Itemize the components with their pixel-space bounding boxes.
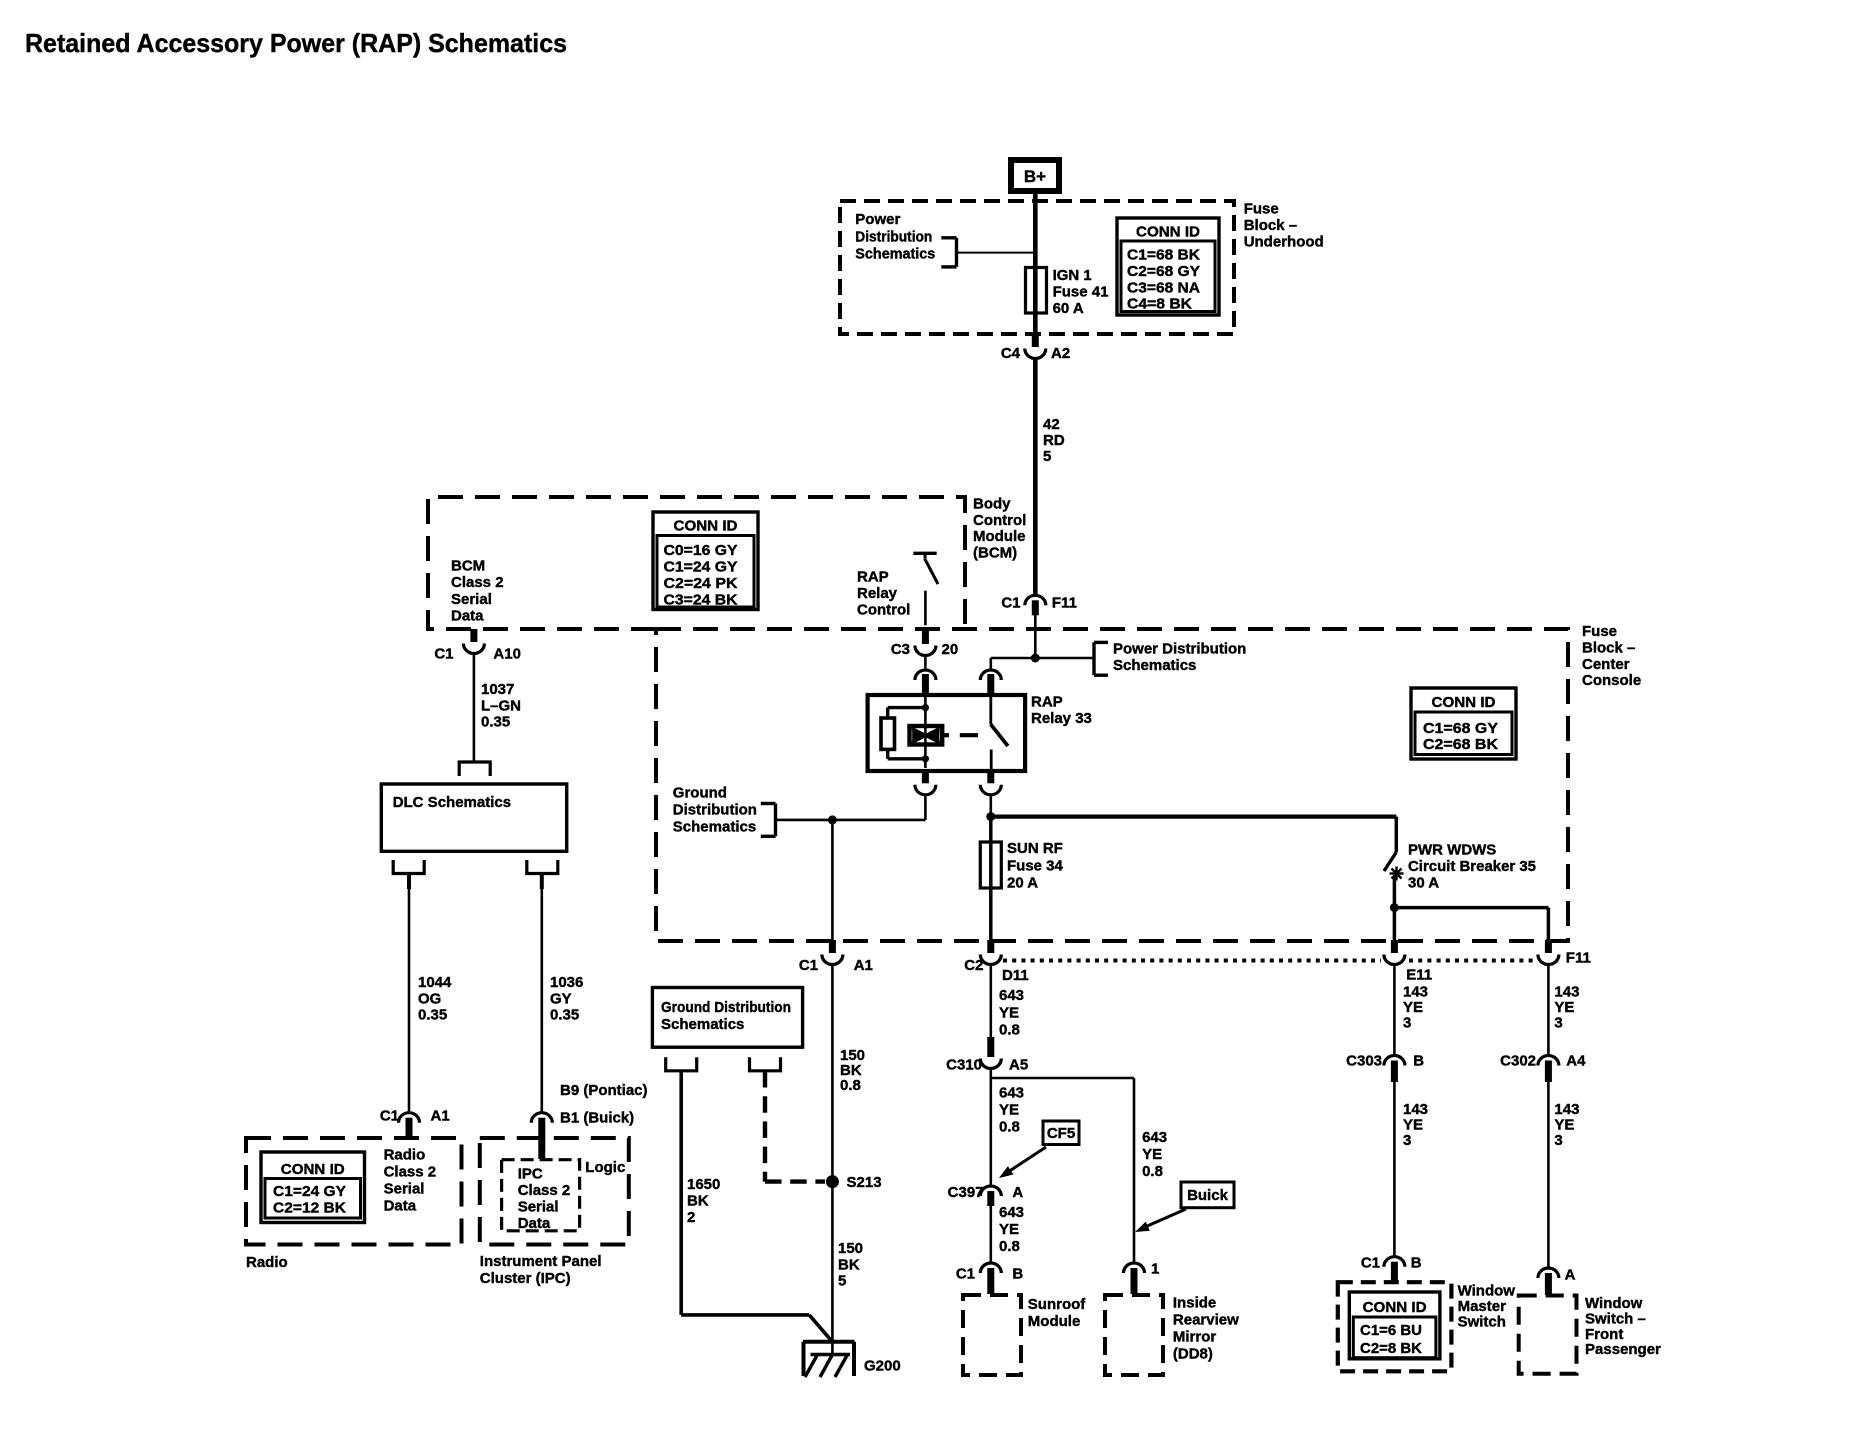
svg-text:Fuse 34: Fuse 34 bbox=[1007, 857, 1064, 874]
connector C302 A4 bbox=[1538, 1056, 1559, 1066]
svg-text:A1: A1 bbox=[431, 1108, 450, 1125]
svg-text:C2=24 PK: C2=24 PK bbox=[664, 575, 738, 592]
fuse SUN RF Fuse 34 20A bbox=[980, 842, 1001, 888]
svg-text:YE: YE bbox=[999, 1102, 1019, 1119]
svg-text:C2=8 BK: C2=8 BK bbox=[1360, 1340, 1422, 1357]
power feed node B+ bbox=[1011, 160, 1059, 191]
svg-text:C2=68 GY: C2=68 GY bbox=[1127, 263, 1200, 280]
svg-text:BCM: BCM bbox=[451, 558, 485, 575]
connector C4 A2 below fuse block bbox=[1032, 334, 1039, 347]
svg-text:Data: Data bbox=[518, 1215, 551, 1232]
svg-text:0.35: 0.35 bbox=[481, 714, 510, 731]
svg-text:C1=68 BK: C1=68 BK bbox=[1127, 247, 1200, 264]
svg-text:1037: 1037 bbox=[481, 681, 514, 698]
connector C1 B window master bbox=[1384, 1257, 1405, 1267]
svg-text:YE: YE bbox=[999, 1004, 1019, 1021]
DLC bottom connector cavity left bbox=[393, 860, 424, 874]
svg-text:(BCM): (BCM) bbox=[973, 545, 1017, 562]
arrow Buick bbox=[1145, 1209, 1186, 1227]
svg-text:BK: BK bbox=[838, 1256, 860, 1273]
radio dashed box bbox=[246, 1138, 462, 1245]
svg-text:B: B bbox=[1413, 1053, 1424, 1070]
svg-text:Schematics: Schematics bbox=[661, 1016, 744, 1033]
svg-text:A: A bbox=[1012, 1184, 1023, 1201]
wire 150 BK main ground leg bbox=[831, 965, 834, 1342]
svg-text:2: 2 bbox=[687, 1209, 695, 1226]
relay linkage dashes bbox=[943, 733, 949, 737]
callout Buick bbox=[1181, 1182, 1234, 1208]
conn id table underhood bbox=[1117, 218, 1219, 315]
ground box cavity left bbox=[666, 1057, 697, 1071]
svg-text:CONN ID: CONN ID bbox=[674, 518, 738, 535]
svg-text:1650: 1650 bbox=[687, 1176, 720, 1193]
DLC schematics box bbox=[381, 784, 566, 851]
svg-text:643: 643 bbox=[1142, 1129, 1167, 1146]
svg-text:Schematics: Schematics bbox=[1113, 657, 1196, 674]
svg-text:CONN ID: CONN ID bbox=[1363, 1299, 1427, 1316]
svg-text:C1=68 GY: C1=68 GY bbox=[1423, 720, 1498, 737]
DLC bottom connector cavity right bbox=[527, 860, 558, 874]
svg-text:0.8: 0.8 bbox=[999, 1238, 1020, 1255]
svg-text:S213: S213 bbox=[847, 1174, 882, 1191]
svg-text:C2: C2 bbox=[964, 957, 983, 974]
svg-text:5: 5 bbox=[1043, 448, 1051, 465]
svg-text:C4=8 BK: C4=8 BK bbox=[1127, 295, 1192, 312]
svg-text:DLC Schematics: DLC Schematics bbox=[393, 794, 511, 811]
svg-text:Distribution: Distribution bbox=[673, 802, 757, 819]
svg-text:F11: F11 bbox=[1566, 949, 1591, 966]
svg-text:Radio: Radio bbox=[246, 1254, 288, 1271]
connector C397 A bbox=[980, 1186, 1001, 1196]
svg-text:A5: A5 bbox=[1009, 1057, 1028, 1074]
junction node BCM output bbox=[1031, 654, 1040, 663]
svg-text:IPC: IPC bbox=[518, 1166, 543, 1183]
IPC dashed box bbox=[480, 1138, 629, 1245]
svg-text:Fuse: Fuse bbox=[1582, 623, 1617, 640]
svg-text:Module: Module bbox=[1028, 1313, 1081, 1330]
svg-text:Logic: Logic bbox=[585, 1159, 625, 1176]
svg-text:Schematics: Schematics bbox=[855, 246, 935, 263]
svg-text:C2=68 BK: C2=68 BK bbox=[1423, 736, 1498, 753]
svg-text:Fuse: Fuse bbox=[1244, 201, 1279, 218]
svg-text:OG: OG bbox=[418, 990, 441, 1007]
dashed wire to S213 bbox=[763, 1071, 767, 1182]
wire DLC right to IPC bbox=[540, 874, 544, 890]
wire bracket to B+ feed bbox=[957, 252, 1036, 254]
svg-text:0.35: 0.35 bbox=[418, 1007, 447, 1024]
svg-text:Sunroof: Sunroof bbox=[1028, 1296, 1086, 1313]
svg-text:RD: RD bbox=[1043, 432, 1065, 449]
svg-text:5: 5 bbox=[838, 1273, 846, 1290]
connector relay coil output bbox=[922, 770, 929, 783]
arrow CF5 bbox=[1008, 1147, 1046, 1172]
DLC top connector cavity bbox=[459, 762, 490, 776]
svg-text:3: 3 bbox=[1554, 1014, 1562, 1031]
svg-text:(DD8): (DD8) bbox=[1173, 1346, 1213, 1363]
svg-text:Serial: Serial bbox=[384, 1181, 425, 1198]
wire switched feed to breaker bbox=[991, 814, 1397, 818]
svg-text:3: 3 bbox=[1554, 1132, 1562, 1149]
svg-text:E11: E11 bbox=[1406, 967, 1432, 984]
ground box cavity right bbox=[750, 1057, 781, 1071]
wire switched feed down to sunroof fuse bbox=[989, 817, 993, 842]
svg-text:0.8: 0.8 bbox=[999, 1021, 1020, 1038]
svg-text:B: B bbox=[1012, 1266, 1023, 1283]
svg-text:Class 2: Class 2 bbox=[518, 1182, 571, 1199]
connector relay switch input bbox=[980, 670, 1001, 680]
connector A front passenger bbox=[1538, 1268, 1559, 1278]
svg-text:20 A: 20 A bbox=[1007, 875, 1038, 892]
svg-text:Circuit Breaker 35: Circuit Breaker 35 bbox=[1408, 858, 1536, 875]
svg-text:Module: Module bbox=[973, 528, 1026, 545]
svg-text:C1: C1 bbox=[1361, 1255, 1380, 1272]
svg-text:C1=24 GY: C1=24 GY bbox=[664, 559, 738, 576]
svg-text:Radio: Radio bbox=[384, 1146, 426, 1163]
wire DLC left to radio bbox=[407, 874, 411, 890]
conn id table window master switch bbox=[1349, 1292, 1440, 1359]
svg-text:GY: GY bbox=[550, 990, 572, 1007]
svg-text:Cluster (IPC): Cluster (IPC) bbox=[480, 1270, 571, 1287]
svg-text:0.35: 0.35 bbox=[550, 1007, 579, 1024]
svg-text:Inside: Inside bbox=[1173, 1294, 1216, 1311]
svg-text:643: 643 bbox=[999, 987, 1024, 1004]
relay solenoid box with X bbox=[910, 726, 943, 745]
svg-text:C1=24 GY: C1=24 GY bbox=[273, 1183, 346, 1200]
svg-text:B1 (Buick): B1 (Buick) bbox=[560, 1110, 634, 1127]
wire ground junction down to C1 A1 bbox=[831, 820, 834, 941]
relay coil resistor loop bbox=[888, 706, 926, 709]
svg-text:Power: Power bbox=[855, 211, 900, 228]
callout bracket power distribution schematics (console) bbox=[1092, 642, 1095, 675]
wire ground distribution line bbox=[776, 819, 926, 822]
svg-text:A10: A10 bbox=[493, 645, 521, 662]
relay coil junction bottom bbox=[922, 755, 929, 762]
connector 1 mirror bbox=[1124, 1263, 1145, 1273]
connector C3 20 pair bbox=[922, 629, 929, 644]
svg-text:D11: D11 bbox=[1002, 967, 1029, 984]
svg-text:C1: C1 bbox=[799, 957, 818, 974]
svg-text:RAP: RAP bbox=[1031, 694, 1063, 711]
connector C1 A1 console bbox=[829, 940, 836, 953]
ground distribution schematics box bbox=[652, 988, 802, 1048]
svg-text:B9 (Pontiac): B9 (Pontiac) bbox=[560, 1082, 648, 1099]
svg-text:Switch: Switch bbox=[1458, 1313, 1506, 1330]
svg-text:C0=16 GY: C0=16 GY bbox=[664, 542, 738, 559]
svg-text:Data: Data bbox=[451, 607, 484, 624]
svg-text:CONN ID: CONN ID bbox=[1432, 694, 1496, 711]
svg-text:1036: 1036 bbox=[550, 974, 583, 991]
svg-text:Center: Center bbox=[1582, 656, 1630, 673]
connector C1 B sunroof bbox=[980, 1263, 1001, 1273]
svg-text:Block –: Block – bbox=[1244, 217, 1297, 234]
svg-text:SUN RF: SUN RF bbox=[1007, 840, 1063, 857]
svg-text:Passenger: Passenger bbox=[1585, 1341, 1661, 1358]
svg-text:RAP: RAP bbox=[857, 569, 889, 586]
svg-text:A2: A2 bbox=[1051, 345, 1070, 362]
callout bracket ground distribution schematics bbox=[774, 804, 777, 837]
circuit breaker PWR WDWS 35 bbox=[1395, 817, 1399, 853]
svg-text:L–GN: L–GN bbox=[481, 697, 521, 714]
svg-text:C1: C1 bbox=[956, 1266, 975, 1283]
svg-text:Data: Data bbox=[384, 1198, 417, 1215]
svg-text:Serial: Serial bbox=[518, 1199, 559, 1216]
svg-text:Serial: Serial bbox=[451, 591, 492, 608]
svg-text:3: 3 bbox=[1403, 1014, 1411, 1031]
conn id table radio bbox=[261, 1152, 365, 1223]
inside rearview mirror dashed box bbox=[1105, 1295, 1163, 1375]
svg-text:Master: Master bbox=[1458, 1298, 1507, 1315]
fuse IGN 1 Fuse 41 60 A bbox=[1026, 268, 1047, 314]
fuse block underhood dashed box bbox=[840, 201, 1234, 334]
wire branch to mirror bbox=[991, 1077, 1134, 1080]
svg-text:A: A bbox=[1565, 1267, 1576, 1284]
svg-text:Distribution: Distribution bbox=[855, 228, 932, 245]
junction node ground wire bbox=[828, 815, 837, 824]
svg-text:BK: BK bbox=[687, 1192, 709, 1209]
svg-text:Relay 33: Relay 33 bbox=[1031, 710, 1092, 727]
svg-text:C4: C4 bbox=[1001, 345, 1021, 362]
ground G200 symbol bbox=[803, 1340, 854, 1344]
svg-text:C3=24 BK: C3=24 BK bbox=[664, 591, 738, 608]
relay coil junction top bbox=[922, 704, 929, 711]
svg-text:CF5: CF5 bbox=[1047, 1125, 1075, 1142]
relay RAP Relay 33 box bbox=[868, 695, 1026, 771]
svg-text:Schematics: Schematics bbox=[673, 819, 756, 836]
junction node breaker output bbox=[1390, 903, 1399, 912]
svg-text:C1: C1 bbox=[380, 1108, 399, 1125]
relay coil wire bbox=[924, 696, 927, 768]
svg-text:Ground: Ground bbox=[673, 785, 727, 802]
svg-text:Retained Accessory Power (RAP): Retained Accessory Power (RAP) Schematic… bbox=[25, 28, 567, 58]
conn id table console bbox=[1411, 688, 1516, 759]
svg-text:20: 20 bbox=[942, 641, 959, 658]
svg-text:A4: A4 bbox=[1566, 1053, 1586, 1070]
wire 42 RD to BCM bbox=[1033, 360, 1038, 596]
svg-text:Control: Control bbox=[973, 512, 1026, 529]
svg-text:A1: A1 bbox=[854, 957, 873, 974]
BCM dashed box bbox=[428, 497, 965, 629]
svg-text:0.8: 0.8 bbox=[840, 1077, 861, 1094]
connector F11 console bbox=[1545, 940, 1552, 953]
svg-text:C302: C302 bbox=[1500, 1053, 1536, 1070]
svg-text:C1: C1 bbox=[434, 645, 453, 662]
svg-text:1044: 1044 bbox=[418, 974, 452, 991]
svg-text:G200: G200 bbox=[864, 1358, 901, 1375]
svg-text:B: B bbox=[1411, 1255, 1422, 1272]
svg-text:30 A: 30 A bbox=[1408, 875, 1439, 892]
svg-text:PWR WDWS: PWR WDWS bbox=[1408, 842, 1496, 859]
svg-text:Body: Body bbox=[973, 496, 1011, 513]
svg-text:IGN 1: IGN 1 bbox=[1053, 267, 1092, 284]
svg-text:CONN ID: CONN ID bbox=[1136, 224, 1200, 241]
sunroof module dashed box bbox=[963, 1295, 1021, 1375]
svg-text:CONN ID: CONN ID bbox=[281, 1161, 345, 1178]
svg-text:C2=12 BK: C2=12 BK bbox=[273, 1199, 346, 1216]
svg-text:C397: C397 bbox=[948, 1184, 984, 1201]
wire C2 to C310 bbox=[989, 965, 992, 1037]
connector relay switch output bbox=[987, 770, 994, 783]
dotted connector row line bbox=[1003, 959, 1381, 963]
svg-text:YE: YE bbox=[1142, 1146, 1162, 1163]
svg-text:0.8: 0.8 bbox=[1142, 1163, 1163, 1180]
svg-text:C1=6 BU: C1=6 BU bbox=[1360, 1322, 1422, 1339]
conn id table BCM bbox=[653, 512, 758, 610]
svg-text:Buick: Buick bbox=[1187, 1187, 1229, 1204]
svg-text:150: 150 bbox=[838, 1240, 863, 1257]
svg-text:C3: C3 bbox=[891, 641, 910, 658]
svg-text:Underhood: Underhood bbox=[1244, 234, 1324, 251]
svg-text:Power Distribution: Power Distribution bbox=[1113, 640, 1246, 657]
svg-text:Instrument Panel: Instrument Panel bbox=[480, 1253, 602, 1270]
svg-text:1: 1 bbox=[1151, 1261, 1159, 1278]
connector B9 B1 IPC bbox=[531, 1113, 552, 1123]
wire B+ down through fuse block bbox=[1033, 194, 1038, 335]
wire BCM output to power dist bracket bbox=[1035, 657, 1094, 660]
connector C2 D11 console bbox=[987, 940, 994, 953]
connector C310 A5 bbox=[987, 1037, 994, 1057]
RAP relay control switch symbol bbox=[913, 552, 936, 555]
wire breaker junction to F11 drop bbox=[1394, 906, 1548, 910]
svg-text:Fuse 41: Fuse 41 bbox=[1053, 284, 1109, 301]
svg-text:C1: C1 bbox=[1001, 595, 1020, 612]
svg-text:Relay: Relay bbox=[857, 585, 898, 602]
svg-text:Block –: Block – bbox=[1582, 640, 1635, 657]
svg-text:YE: YE bbox=[999, 1221, 1019, 1238]
svg-text:60 A: 60 A bbox=[1053, 300, 1084, 317]
svg-text:643: 643 bbox=[999, 1204, 1024, 1221]
connector C1 A1 radio bbox=[399, 1113, 420, 1123]
svg-text:B+: B+ bbox=[1024, 167, 1046, 186]
wire sunroof fuse to C2 bbox=[989, 888, 993, 941]
svg-text:Console: Console bbox=[1582, 672, 1641, 689]
svg-text:Window: Window bbox=[1458, 1282, 1516, 1299]
svg-text:C303: C303 bbox=[1346, 1053, 1382, 1070]
svg-text:Class 2: Class 2 bbox=[451, 574, 504, 591]
svg-text:3: 3 bbox=[1403, 1132, 1411, 1149]
connector C1 F11 into BCM bbox=[1025, 595, 1046, 605]
svg-text:Rearview: Rearview bbox=[1173, 1312, 1239, 1329]
connector E11 console bbox=[1391, 940, 1398, 953]
svg-text:42: 42 bbox=[1043, 416, 1060, 433]
connector C303 B bbox=[1384, 1056, 1405, 1066]
junction node switched feed bbox=[986, 812, 995, 821]
svg-text:Ground Distribution: Ground Distribution bbox=[661, 999, 791, 1016]
relay switch contact bbox=[989, 697, 992, 725]
svg-text:643: 643 bbox=[999, 1085, 1024, 1102]
svg-text:C3=68 NA: C3=68 NA bbox=[1127, 279, 1200, 296]
IPC logic inner dashed box bbox=[502, 1160, 580, 1231]
window master switch dashed box bbox=[1338, 1282, 1452, 1371]
wire 1650 BK left leg bbox=[679, 1071, 683, 1315]
connector C1 A10 below BCM bbox=[470, 629, 477, 642]
svg-text:Mirror: Mirror bbox=[1173, 1329, 1217, 1346]
splice S213 bbox=[826, 1175, 839, 1188]
svg-text:0.8: 0.8 bbox=[999, 1119, 1020, 1136]
svg-text:C310: C310 bbox=[946, 1057, 982, 1074]
wire BCM output to relay switch bbox=[991, 657, 1036, 660]
svg-text:F11: F11 bbox=[1052, 595, 1077, 612]
wire breaker down to junction bbox=[1393, 877, 1397, 908]
svg-text:Class 2: Class 2 bbox=[384, 1163, 437, 1180]
wire breaker junction to E11 bbox=[1393, 908, 1397, 941]
fuse block center console dashed box bbox=[656, 629, 1568, 941]
wire F11 to C302 bbox=[1547, 965, 1550, 1056]
wire E11 to C303 bbox=[1393, 965, 1396, 1056]
callout CF5 bbox=[1043, 1121, 1079, 1145]
svg-text:Control: Control bbox=[857, 601, 910, 618]
window switch front passenger dashed box bbox=[1519, 1296, 1577, 1374]
callout bracket power distribution schematics (underhood) bbox=[955, 238, 958, 267]
